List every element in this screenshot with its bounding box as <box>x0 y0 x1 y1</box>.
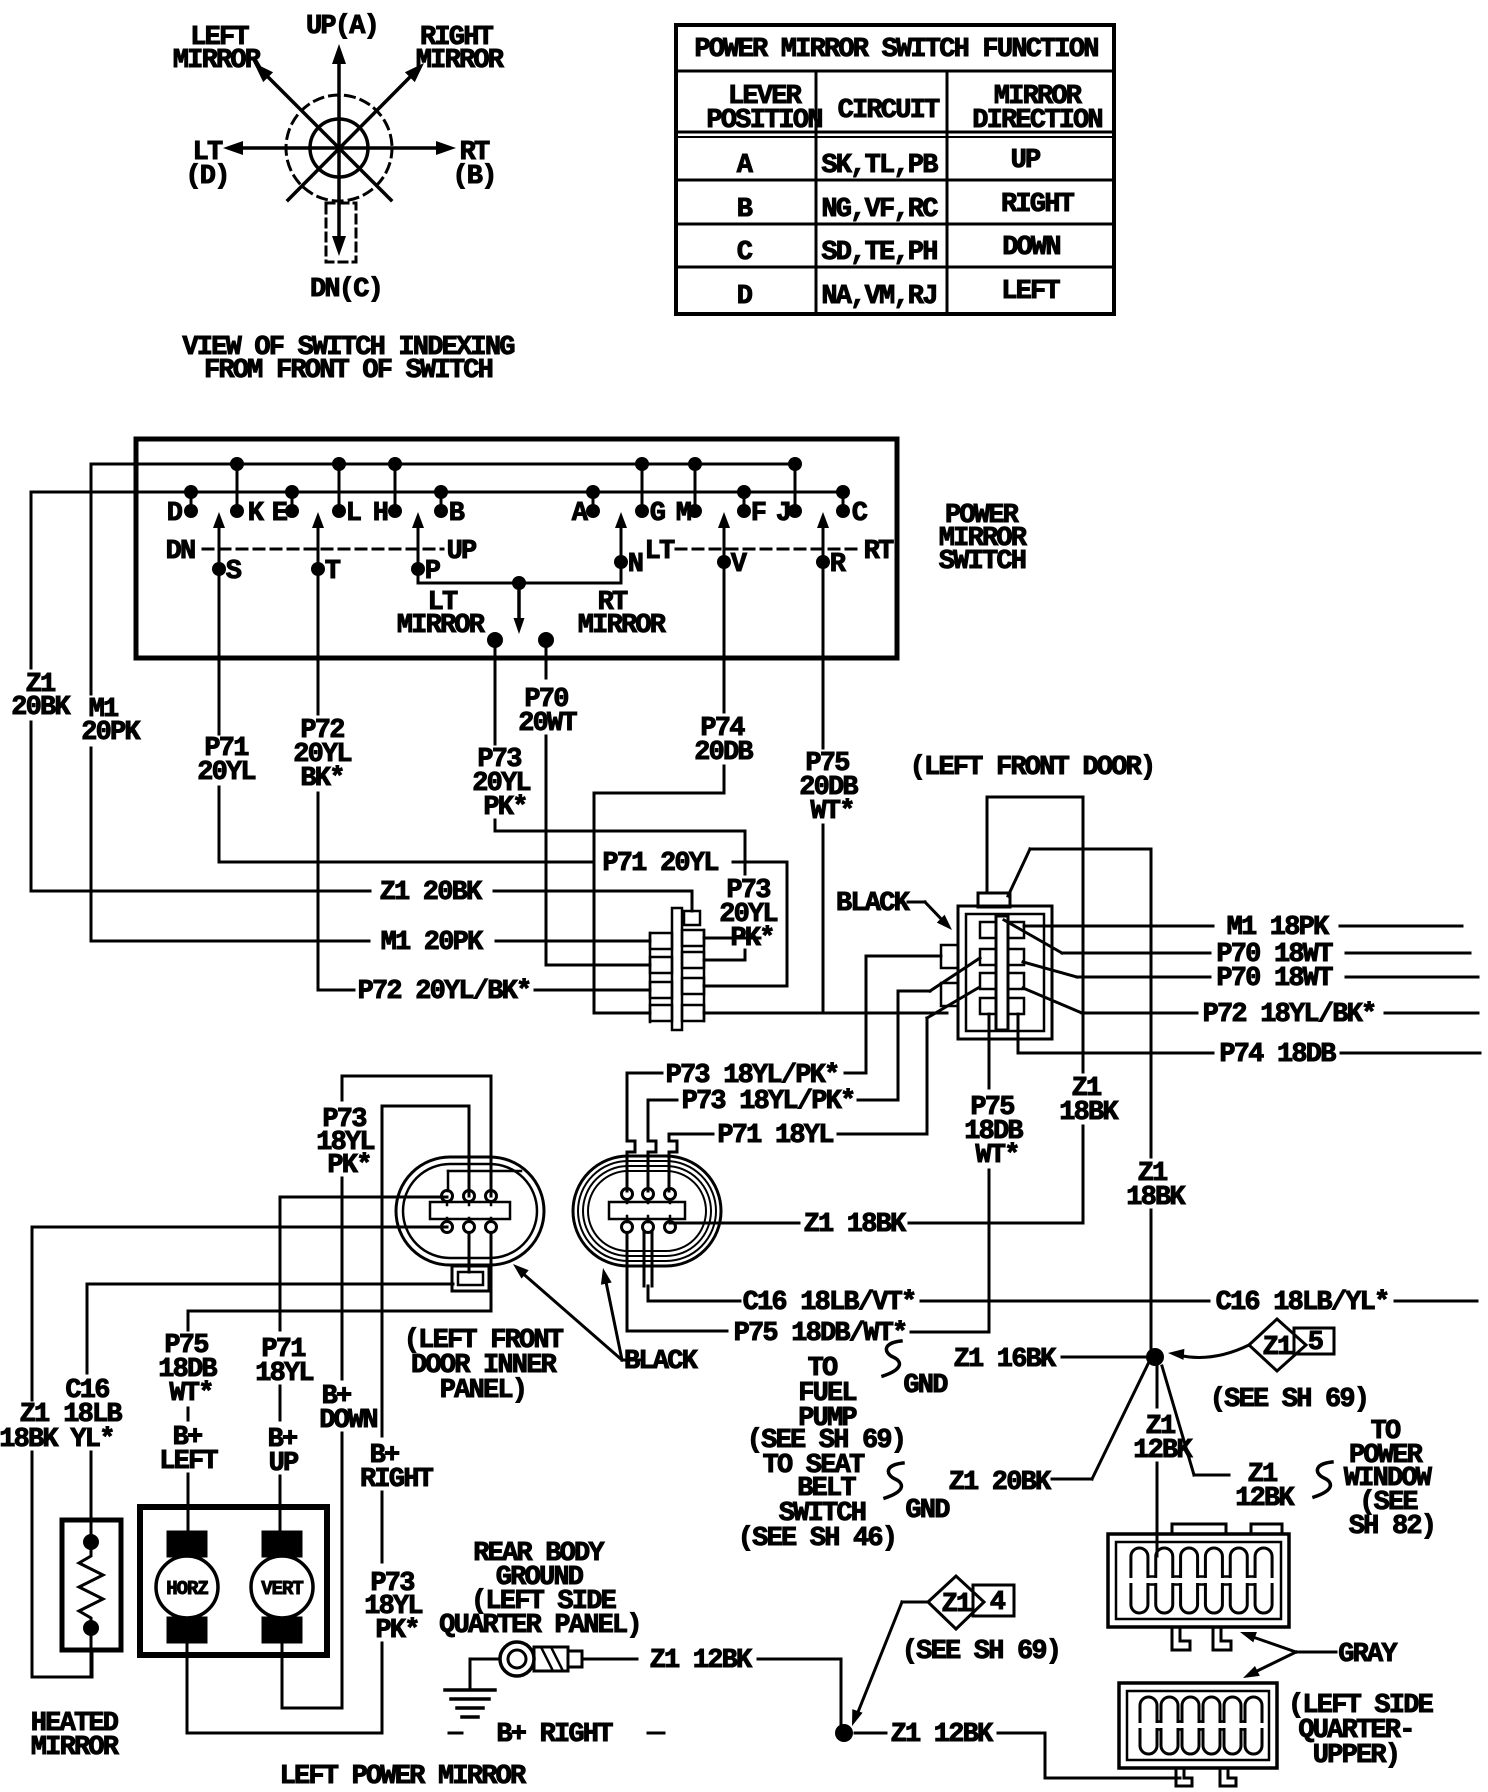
svg-text:GND: GND <box>903 1371 948 1401</box>
svg-text:PK*: PK* <box>483 793 526 823</box>
svg-text:M1 20PK: M1 20PK <box>381 928 484 958</box>
svg-text:CIRCUIT: CIRCUIT <box>838 96 940 126</box>
switch indexing diagram <box>173 12 514 386</box>
svg-text:MIRROR: MIRROR <box>397 611 486 641</box>
horizontal axis LT/RT arrows <box>236 146 443 150</box>
wire P71 20YL from switch <box>218 569 221 734</box>
vertical motor <box>251 1532 313 1642</box>
svg-text:GND: GND <box>905 1496 950 1526</box>
svg-text:P73 18YL/PK*: P73 18YL/PK* <box>682 1087 855 1117</box>
dashed detent square <box>326 203 356 262</box>
svg-text:WT*: WT* <box>810 797 853 827</box>
svg-text:Z1: Z1 <box>942 1590 972 1620</box>
switch terminals upper bus <box>230 457 244 471</box>
svg-text:Z1 12BK: Z1 12BK <box>891 1720 994 1750</box>
oval connector left front door inner panel <box>396 1157 544 1265</box>
svg-text:DOWN: DOWN <box>1002 233 1060 263</box>
svg-text:Z1 20BK: Z1 20BK <box>380 878 483 908</box>
svg-text:(SEE SH 46): (SEE SH 46) <box>738 1524 896 1554</box>
svg-text:Z1 20BK: Z1 20BK <box>949 1468 1052 1498</box>
terminal dots S T P N V R <box>212 562 226 576</box>
wire P73 20YL/PK from switch LT mirror <box>494 640 497 744</box>
splice symbol Z1 4 <box>928 1576 1014 1629</box>
svg-text:RT: RT <box>864 537 894 567</box>
svg-text:PANEL): PANEL) <box>440 1376 526 1406</box>
wire Z1 16BK with GND break <box>883 1341 901 1376</box>
power mirror switch box <box>136 439 897 658</box>
svg-text:L: L <box>346 499 361 529</box>
svg-text:18BK: 18BK <box>1126 1183 1186 1213</box>
wire P73 18YL/PK first <box>627 1073 635 1191</box>
svg-text:DOWN: DOWN <box>319 1406 377 1436</box>
bus wire upper <box>91 463 795 466</box>
splice symbol Z1 5 <box>1178 1319 1334 1371</box>
wire P72 20YL/BK from switch <box>317 569 320 714</box>
svg-text:SWITCH: SWITCH <box>939 547 1026 577</box>
wire Z1 12BK from ground <box>582 1658 637 1661</box>
svg-text:P71 20YL: P71 20YL <box>602 849 718 879</box>
vertical axis with up/down arrows <box>337 62 341 238</box>
wire P72 18YL/BK <box>1023 988 1082 1013</box>
wire P70 18WT second <box>1023 962 1077 977</box>
svg-text:S: S <box>226 557 242 587</box>
wire P75 18DB/WT <box>626 1233 629 1331</box>
svg-text:F: F <box>751 499 766 529</box>
svg-text:HORZ: HORZ <box>166 1578 208 1600</box>
svg-text:RIGHT: RIGHT <box>1001 190 1075 220</box>
svg-text:(B): (B) <box>452 162 495 192</box>
svg-text:BLACK: BLACK <box>836 889 911 919</box>
svg-text:M: M <box>676 499 691 529</box>
door harness comb connector <box>650 908 704 1030</box>
svg-text:BK*: BK* <box>300 764 343 794</box>
svg-text:(SEE SH 69): (SEE SH 69) <box>1210 1385 1368 1415</box>
svg-text:NG,VF,RC: NG,VF,RC <box>821 195 938 225</box>
wire P73 B+ DOWN from oval right pin <box>490 1076 493 1196</box>
svg-text:18BK: 18BK <box>0 1425 59 1455</box>
svg-text:VERT: VERT <box>261 1578 303 1600</box>
wire P70 18WT first <box>1004 920 1062 953</box>
svg-text:T: T <box>325 557 341 587</box>
NE diagonal arrow right mirror <box>288 75 412 200</box>
quarter panel connector <box>1119 1683 1277 1786</box>
svg-text:BLACK: BLACK <box>624 1347 699 1377</box>
svg-text:UP: UP <box>269 1449 299 1479</box>
svg-text:C: C <box>737 238 753 268</box>
svg-text:18YL: 18YL <box>255 1359 313 1389</box>
svg-text:D: D <box>737 282 753 312</box>
svg-text:12BK: 12BK <box>1235 1484 1295 1514</box>
wire Z1 18BK oval to door connector <box>670 1222 799 1225</box>
lever common elbow <box>418 562 621 583</box>
svg-text:RIGHT: RIGHT <box>360 1465 434 1495</box>
svg-text:P72 20YL/BK*: P72 20YL/BK* <box>358 977 531 1007</box>
wire Z1 18BK to heated mirror <box>32 1226 447 1229</box>
svg-text:SH 82): SH 82) <box>1349 1512 1435 1542</box>
svg-text:DN: DN <box>166 537 195 567</box>
svg-text:E: E <box>272 499 288 529</box>
svg-text:SK,TL,PB: SK,TL,PB <box>821 151 938 181</box>
svg-text:P74 18DB: P74 18DB <box>1219 1040 1336 1070</box>
wire M1 20PK from switch <box>90 464 93 694</box>
ground junction node <box>835 1724 853 1742</box>
svg-text:20WT: 20WT <box>518 709 577 739</box>
wire from comb to door connector upper <box>704 937 760 940</box>
svg-text:P70 18WT: P70 18WT <box>1216 964 1333 994</box>
svg-text:(D): (D) <box>185 162 228 192</box>
RT mirror output dot <box>538 632 554 648</box>
svg-text:(SEE SH 69): (SEE SH 69) <box>902 1637 1060 1667</box>
svg-text:NA,VM,RJ: NA,VM,RJ <box>821 282 936 312</box>
svg-text:WT*: WT* <box>169 1379 212 1409</box>
wire P70 20WT from switch RT mirror <box>545 640 548 678</box>
svg-text:H: H <box>373 499 388 529</box>
junction node Z1 <box>1146 1348 1164 1366</box>
svg-text:MIRROR: MIRROR <box>416 46 505 76</box>
wire C16 18LB/YL to heated mirror <box>87 1283 453 1286</box>
svg-text:P75 18DB/WT*: P75 18DB/WT* <box>734 1319 907 1349</box>
svg-text:GRAY: GRAY <box>1338 1640 1398 1670</box>
svg-text:Z1: Z1 <box>1263 1333 1293 1363</box>
oval connector 2 black <box>573 1156 721 1266</box>
solid circle <box>310 119 368 177</box>
svg-text:QUARTER PANEL): QUARTER PANEL) <box>439 1611 641 1641</box>
wire Z1 20BK with GND break <box>885 1463 903 1498</box>
svg-text:MIRROR: MIRROR <box>173 46 262 76</box>
svg-text:Z1 16BK: Z1 16BK <box>954 1345 1057 1375</box>
wire Z1 18BK via connector top <box>986 797 989 893</box>
NW diagonal arrow left mirror <box>266 75 391 200</box>
wire Z1 12BK down to connector <box>1156 1366 1159 1407</box>
svg-text:MIRROR: MIRROR <box>578 611 667 641</box>
svg-text:D: D <box>167 499 183 529</box>
svg-text:20BK: 20BK <box>11 693 71 723</box>
wire Z1 20BK from switch <box>30 492 33 668</box>
wire B+ RIGHT from oval middle pin <box>468 1106 471 1196</box>
svg-text:J: J <box>776 499 790 529</box>
wiper arrows <box>218 527 221 569</box>
wire Z1 12BK branch to power window <box>1162 1366 1194 1475</box>
svg-text:LEFT POWER MIRROR: LEFT POWER MIRROR <box>280 1762 527 1792</box>
door connector body <box>941 893 1052 1039</box>
wire P75 B+ LEFT from oval bottom right pin <box>490 1233 493 1311</box>
ring terminal <box>500 1642 582 1676</box>
switch terminals lower bus <box>184 485 198 499</box>
svg-text:LEFT: LEFT <box>1001 277 1060 307</box>
wire P71 B+ UP from oval to vert motor <box>280 1196 447 1199</box>
svg-text:C16 18LB/YL*: C16 18LB/YL* <box>1216 1288 1389 1318</box>
svg-text:UP: UP <box>1011 146 1041 176</box>
LT mirror output dot <box>487 632 503 648</box>
wire P74 18DB <box>1017 1014 1020 1053</box>
wire Z1 18BK to junction <box>1008 849 1030 896</box>
svg-text:G: G <box>650 499 665 529</box>
dashed circle <box>286 95 392 201</box>
svg-text:5: 5 <box>1308 1328 1323 1358</box>
svg-text:P71 18YL: P71 18YL <box>717 1121 833 1151</box>
svg-text:UPPER): UPPER) <box>1313 1741 1399 1771</box>
svg-text:POWER MIRROR SWITCH FUNCTION: POWER MIRROR SWITCH FUNCTION <box>694 35 1098 65</box>
power window connector gray <box>1108 1524 1289 1650</box>
svg-text:18BK: 18BK <box>1059 1098 1119 1128</box>
svg-text:B+ RIGHT: B+ RIGHT <box>496 1720 613 1750</box>
svg-text:FROM FRONT OF SWITCH: FROM FRONT OF SWITCH <box>204 356 493 386</box>
wire Z1 12BK bottom <box>855 1732 886 1735</box>
svg-text:POSITION: POSITION <box>706 106 822 136</box>
svg-text:N: N <box>628 550 643 580</box>
svg-text:LT: LT <box>645 537 675 567</box>
wire P71 18YL <box>669 1134 677 1191</box>
svg-text:B: B <box>737 195 753 225</box>
wire P73 18YL/PK second <box>648 1100 656 1191</box>
svg-text:Z1 18BK: Z1 18BK <box>804 1210 907 1240</box>
svg-text:UP(A): UP(A) <box>306 12 378 42</box>
label B+ RIGHT bottom <box>449 1732 462 1735</box>
svg-text:20PK: 20PK <box>81 718 141 748</box>
svg-text:SD,TE,PH: SD,TE,PH <box>821 238 937 268</box>
wire P74 20DB from switch <box>723 562 726 712</box>
horizontal motor <box>156 1532 218 1642</box>
wire from comb to door connector lower <box>704 1012 947 1015</box>
wire P75 20DB/WT from switch <box>822 562 825 748</box>
heated mirror <box>62 1520 121 1677</box>
ground symbol <box>470 1658 500 1661</box>
wire M1 18PK <box>1024 925 1213 928</box>
wire C16 18LB/VT <box>643 1232 646 1286</box>
svg-text:(LEFT FRONT DOOR): (LEFT FRONT DOOR) <box>910 753 1155 783</box>
svg-text:MIRROR: MIRROR <box>31 1733 120 1763</box>
svg-text:DN(C): DN(C) <box>310 275 382 305</box>
svg-text:4: 4 <box>990 1588 1006 1618</box>
power mirror switch function table <box>676 25 1114 314</box>
svg-text:WT*: WT* <box>975 1141 1018 1171</box>
svg-text:20YL: 20YL <box>197 758 255 788</box>
svg-text:PK*: PK* <box>327 1151 370 1181</box>
svg-text:DIRECTION: DIRECTION <box>972 106 1102 136</box>
svg-text:P72 18YL/BK*: P72 18YL/BK* <box>1203 1000 1376 1030</box>
svg-text:C16 18LB/VT*: C16 18LB/VT* <box>743 1288 916 1318</box>
left power mirror box <box>140 1507 327 1655</box>
svg-text:B: B <box>449 499 465 529</box>
bus wire lower <box>31 491 843 494</box>
svg-text:Z1 12BK: Z1 12BK <box>650 1646 753 1676</box>
oval connector lock tab <box>452 1266 489 1291</box>
svg-text:20DB: 20DB <box>694 738 753 768</box>
svg-text:M1 18PK: M1 18PK <box>1227 913 1330 943</box>
svg-text:UP: UP <box>447 537 477 567</box>
svg-text:C: C <box>852 499 868 529</box>
